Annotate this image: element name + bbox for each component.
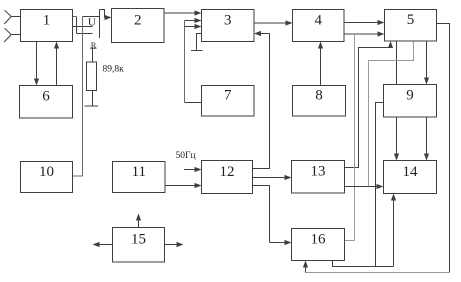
svg-text:13: 13 [311,164,326,180]
svg-text:14: 14 [403,164,419,180]
svg-text:50Гц: 50Гц [176,151,196,161]
svg-text:7: 7 [224,88,232,104]
svg-text:10: 10 [39,164,54,180]
svg-text:8: 8 [315,88,323,104]
svg-text:11: 11 [132,164,146,180]
svg-text:89,8к: 89,8к [103,65,125,75]
svg-text:16: 16 [311,231,327,247]
svg-text:5: 5 [407,12,415,28]
svg-text:2: 2 [134,12,142,28]
svg-text:3: 3 [224,12,232,28]
svg-text:12: 12 [220,164,235,180]
svg-text:4: 4 [314,12,322,28]
svg-text:9: 9 [406,88,414,104]
svg-text:6: 6 [42,89,50,105]
svg-text:U: U [88,16,96,28]
svg-text:1: 1 [43,12,51,28]
svg-text:15: 15 [131,232,146,248]
